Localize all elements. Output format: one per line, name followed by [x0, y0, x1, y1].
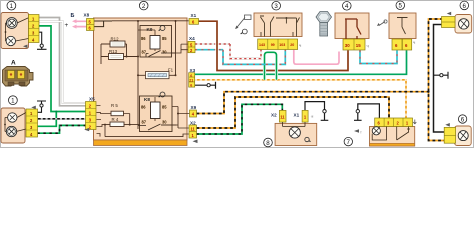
circled label 6 bottom — [458, 115, 466, 124]
block2 internal vertical right of K9 — [175, 21, 177, 76]
wire orange-black 1: X9 to right column — [197, 92, 429, 114]
ground terminal from X3 pin3 — [195, 82, 216, 89]
circled label 1 top — [7, 1, 16, 10]
wire white: top headlamp to X5 — [39, 22, 86, 104]
svg-text:87: 87 — [142, 119, 147, 124]
wire orange-white: X3 pin2 to rear lamp pin4 — [195, 80, 406, 118]
svg-text:20: 20 — [290, 43, 294, 47]
svg-text:21: 21 — [189, 79, 193, 83]
hazard switch internal contacts — [260, 16, 300, 37]
svg-text:143: 143 — [259, 43, 265, 47]
hazard switch connector pins — [258, 39, 298, 50]
svg-text:R12: R12 — [111, 36, 120, 41]
svg-text:Б: Б — [71, 13, 75, 19]
circled label 4 — [343, 2, 352, 11]
connector X2 right — [189, 120, 197, 138]
svg-text:т: т — [360, 130, 362, 135]
cluster connector X1 pin 1 — [294, 110, 309, 122]
relay K9 indicator lamp glyph — [159, 26, 166, 31]
wire green-black: block2 X2 pin1 to cluster pin11 — [197, 104, 283, 134]
wire cyan-red: X4 pin2 to hazard pin3 — [195, 50, 285, 65]
svg-text:30: 30 — [345, 43, 350, 48]
resistor R13 — [109, 49, 124, 60]
wire orange-black 2: X2 to rear lamp pin2 — [197, 97, 390, 128]
side repeater bottom lamp — [458, 131, 468, 141]
ground from cluster pin1 — [305, 102, 328, 121]
svg-text:86: 86 — [141, 36, 146, 41]
hazard switch button glyph — [235, 15, 251, 29]
side repeater top lamp — [459, 19, 469, 29]
circled label 8 — [264, 138, 273, 147]
relay K8 indicator lamp glyph — [159, 92, 166, 97]
resistor R5 — [111, 103, 124, 116]
svg-text:A: A — [11, 60, 16, 67]
wire brown: X1 pin6 to ignition pin30 — [198, 21, 349, 70]
svg-text:4: 4 — [345, 3, 349, 10]
relay K9 box — [140, 26, 172, 58]
block2 internal X8 feed jog — [94, 21, 112, 27]
side repeater block 6 bottom body — [455, 126, 472, 146]
wire green: top headlamp pin2 to X5 pin2 — [38, 26, 87, 126]
wire white-red: X4 pin5 to hazard pin1 — [195, 44, 261, 59]
wire orange-black right column to side repeaters — [427, 19, 445, 141]
relay K8 box — [140, 96, 173, 132]
side repeater bottom connector — [444, 127, 455, 143]
connector X3 — [189, 68, 196, 87]
rear lamp switch contact — [397, 127, 410, 141]
connector A illustration — [3, 67, 34, 87]
svg-text:+: + — [65, 22, 69, 29]
lamp L4 bottom headlamp — [6, 126, 16, 136]
svg-text:R 5: R 5 — [111, 103, 118, 108]
circled label 1 bottom — [9, 96, 18, 105]
arrow marker below X5 — [84, 128, 89, 131]
side repeater top connector — [442, 17, 456, 28]
svg-text:R13: R13 — [109, 49, 118, 54]
block2 internal X4 feed — [172, 44, 189, 53]
lamp L2 top headlamp — [6, 36, 15, 45]
lamp L1 top headlamp — [6, 18, 17, 29]
block2 internal bottom wiring — [97, 106, 190, 137]
svg-text:30: 30 — [162, 119, 167, 124]
turn switch internal contact — [389, 18, 408, 51]
rear lamp bulb — [372, 127, 386, 141]
cluster connector X2 pin 11 — [271, 110, 286, 122]
svg-text:86: 86 — [141, 104, 146, 109]
svg-text:1: 1 — [11, 98, 15, 105]
svg-text:7: 7 — [347, 139, 351, 146]
bottom headlamp connector pins 1-4 — [26, 109, 38, 137]
wire black right column with ground — [434, 25, 449, 133]
svg-text:R 4: R 4 — [112, 117, 119, 122]
ground from rear lamp pin1 — [354, 104, 379, 120]
svg-text:X8: X8 — [84, 13, 90, 18]
svg-text:6: 6 — [190, 74, 192, 78]
turn switch lever glyph — [377, 20, 387, 26]
svg-text:99: 99 — [271, 43, 275, 47]
connector X9 — [190, 105, 197, 117]
wire green-black: X5 pin4 to bottom headlamp pin4 — [38, 125, 87, 133]
svg-text:8: 8 — [266, 140, 270, 147]
rear lamp connector pins — [375, 118, 413, 127]
svg-text:85: 85 — [162, 104, 167, 109]
montage block 2 body — [94, 18, 188, 146]
fuse F1 — [137, 68, 177, 79]
svg-text:2: 2 — [142, 3, 146, 10]
side repeater block 6 top body — [455, 15, 472, 34]
svg-text:1: 1 — [10, 3, 14, 10]
connector X1 top — [189, 13, 199, 24]
block2 internal vertical left of K9 — [137, 21, 139, 130]
top headlamp connector pins 1-4 — [29, 15, 40, 43]
svg-text:103: 103 — [279, 43, 285, 47]
svg-text:11: 11 — [191, 126, 196, 131]
svg-text:K8: K8 — [144, 97, 150, 102]
circled label 2 — [139, 1, 148, 10]
arrow marker near bottom headlamp ground — [31, 106, 36, 110]
rear lamp block 7 body — [370, 127, 415, 147]
wire gray: top headlamp pin1 to X5 pin1 — [39, 18, 86, 106]
svg-text:85: 85 — [162, 36, 167, 41]
svg-text:3: 3 — [274, 3, 278, 10]
svg-text:6: 6 — [461, 116, 465, 123]
junction of green branch — [55, 111, 57, 113]
headlamp block 1 (front turn lamp, top) — [1, 13, 29, 49]
instrument cluster block 8 body — [275, 123, 317, 145]
svg-text:X4: X4 — [189, 36, 195, 41]
ignition switch pins 30 15 — [343, 39, 365, 50]
svg-text:5: 5 — [399, 3, 403, 10]
arrow marker at side repeater top — [447, 12, 452, 16]
svg-text:6: 6 — [190, 83, 192, 87]
svg-text:X1: X1 — [191, 13, 197, 18]
svg-text:30: 30 — [162, 50, 167, 55]
wire teal: X3 pin1 to turn-switch right pin — [195, 50, 407, 74]
ground from top headlamp pin3 — [37, 32, 47, 49]
hazard switch block 3 body — [254, 13, 302, 37]
wire pink: hazard pin4 to ignition pin30 junction — [294, 50, 339, 65]
connector X4 — [188, 36, 195, 53]
svg-text:6: 6 — [463, 3, 467, 10]
hazard switch lamp glyph — [241, 29, 248, 34]
ground from bottom headlamp pin1 — [37, 101, 46, 112]
arrow marker at side repeater bottom — [445, 123, 450, 127]
ignition switch block 4 body — [335, 13, 369, 39]
circled label 5 — [396, 1, 405, 10]
cluster indicator lamp — [283, 122, 305, 138]
svg-text:X2: X2 — [190, 120, 196, 125]
resistor R12 — [110, 36, 125, 47]
relay K8 coil — [141, 97, 167, 124]
relay K9 contact blade — [146, 51, 176, 57]
svg-text:11: 11 — [280, 114, 285, 119]
ignition switch internal contact — [345, 19, 361, 39]
arrow marker near rear lamp block — [354, 129, 359, 133]
circled label 6 top — [460, 1, 469, 10]
turn switch pins — [392, 39, 412, 50]
arrow marker below block2 X2 — [193, 140, 198, 144]
block2 internal resistor feed vertical — [101, 44, 138, 64]
cluster lamp arrow glyph — [305, 137, 311, 141]
headlamp block 1 (front turn lamp, bottom) — [1, 108, 26, 143]
wire cyan-red 2: ignition pin15 to turn-switch left pin — [360, 50, 397, 63]
ignition key glyph — [316, 12, 332, 37]
block2 internal wiring top bus — [112, 20, 189, 22]
connector X8 — [84, 13, 95, 31]
wire black-white: X5 pin3 to bottom headlamp pin2 — [38, 118, 87, 120]
arrow marker at rear lamp connector — [413, 120, 416, 125]
resistor R4 — [110, 117, 124, 127]
lamp L3 bottom headlamp — [8, 113, 17, 122]
svg-text:X3: X3 — [190, 68, 196, 73]
svg-text:15: 15 — [356, 43, 361, 48]
svg-text:X9: X9 — [191, 105, 197, 110]
pink battery feed arrows at X8 — [72, 19, 87, 28]
circled label 3 — [272, 1, 281, 10]
circled label 7 — [344, 137, 352, 146]
svg-text:X2: X2 — [271, 112, 277, 117]
arrow marker near top headlamp — [23, 45, 28, 49]
relay K8 contact blade — [138, 124, 177, 130]
connector X5 — [86, 96, 97, 129]
green arch from hazard pin2 down to orange line — [265, 52, 277, 80]
svg-text:X5: X5 — [89, 96, 95, 101]
turn switch block 5 body — [389, 13, 416, 39]
relay K9 coil — [138, 30, 167, 55]
svg-text:X1: X1 — [294, 112, 300, 117]
